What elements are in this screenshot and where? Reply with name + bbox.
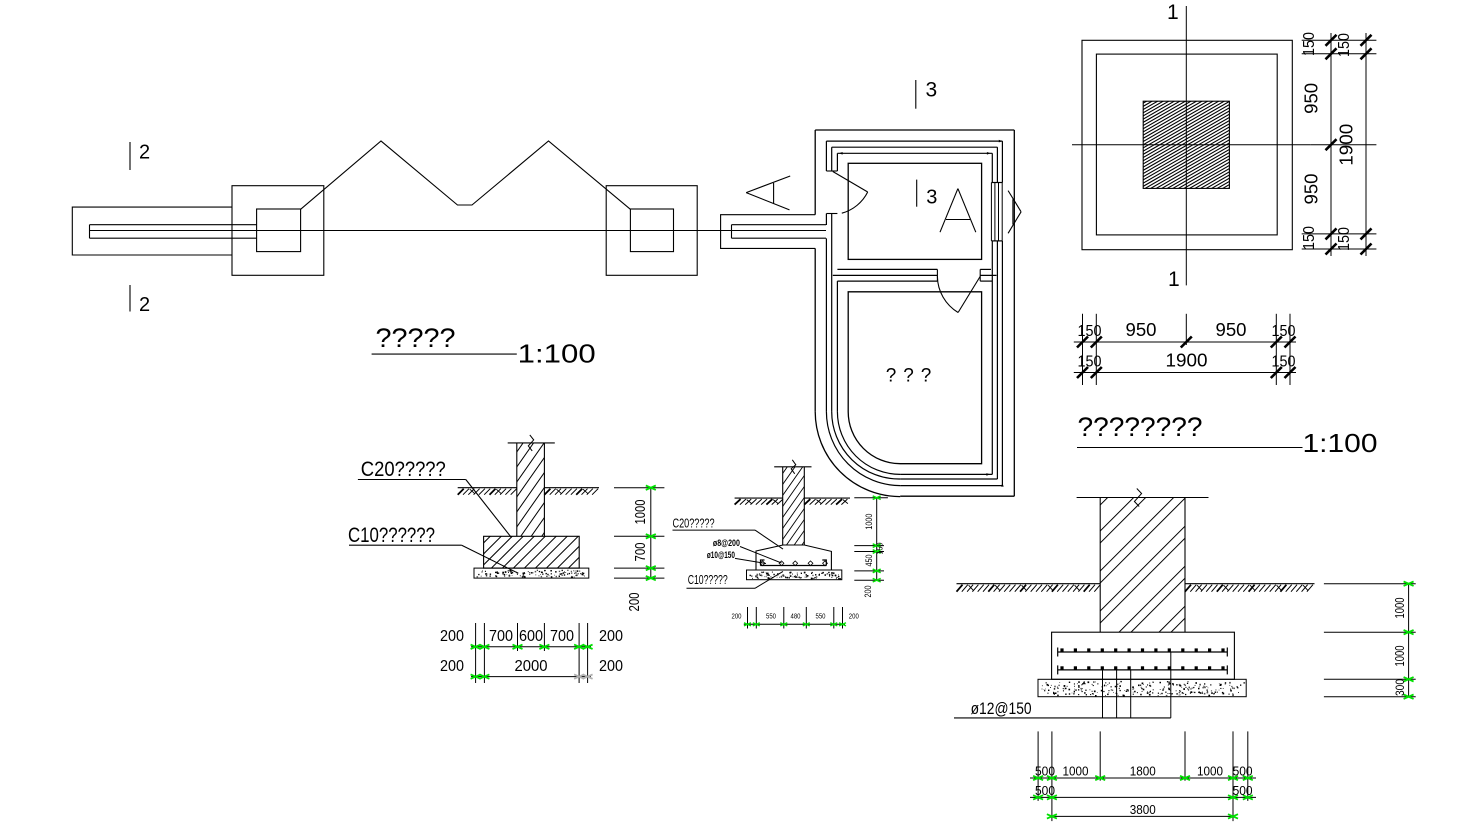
dim text right col B bbox=[1336, 33, 1357, 251]
detail3 bottom dim text row 1 bbox=[1035, 764, 1253, 779]
svg-text:C20?????: C20????? bbox=[673, 516, 715, 531]
svg-text:200: 200 bbox=[440, 658, 464, 675]
right wall cavity lines bbox=[732, 225, 827, 239]
detail1 bottom dim text row 1 bbox=[440, 628, 623, 645]
detail2 right dim text bbox=[863, 514, 885, 598]
svg-text:1000: 1000 bbox=[1197, 764, 1223, 779]
detail2 bottom extension lines bbox=[748, 607, 843, 629]
svg-text:C10?????: C10????? bbox=[688, 572, 728, 587]
svg-text:500: 500 bbox=[1233, 764, 1253, 779]
svg-text:150: 150 bbox=[1336, 227, 1353, 251]
detail2 right dim line bbox=[873, 496, 881, 582]
detail3 bottom dim row 2 bbox=[1030, 795, 1256, 799]
detail2 rebar line with hooks bbox=[760, 560, 827, 566]
footing plan bottom dim row 2 bbox=[1074, 367, 1296, 378]
svg-text:1900: 1900 bbox=[1166, 351, 1208, 371]
door 2 leaf and swing bbox=[937, 276, 980, 312]
svg-text:1000: 1000 bbox=[632, 500, 649, 525]
svg-text:150: 150 bbox=[1336, 33, 1353, 57]
footing plan outer square bbox=[1082, 40, 1292, 249]
svg-text:????????: ???????? bbox=[1078, 412, 1203, 442]
detail3 right extension lines bbox=[1324, 584, 1416, 697]
right wall outline bbox=[721, 215, 816, 249]
footing plan column hatched bbox=[1141, 52, 1231, 238]
section mark 1 bottom bbox=[1168, 268, 1180, 291]
detail3 ground left bbox=[957, 584, 1101, 592]
svg-text:200: 200 bbox=[863, 586, 873, 598]
svg-text:150: 150 bbox=[1272, 354, 1296, 371]
svg-text:2: 2 bbox=[139, 142, 150, 164]
svg-text:300: 300 bbox=[1393, 679, 1407, 696]
svg-text:550: 550 bbox=[816, 614, 826, 621]
svg-text:3: 3 bbox=[926, 79, 938, 102]
detail3 bottom dim text row 3 bbox=[1130, 802, 1156, 817]
svg-text:1000: 1000 bbox=[1392, 598, 1407, 619]
svg-text:ø10@150: ø10@150 bbox=[707, 550, 735, 561]
detail3 bottom dim row 3 bbox=[1047, 814, 1238, 818]
section arrow A left bbox=[746, 176, 790, 210]
guardhouse wall line 4 bbox=[837, 152, 992, 476]
svg-text:1800: 1800 bbox=[1130, 764, 1156, 779]
svg-text:?: ? bbox=[903, 366, 914, 387]
svg-text:200: 200 bbox=[599, 658, 623, 675]
detail1 right dim line bbox=[646, 486, 656, 581]
svg-text:500: 500 bbox=[1035, 764, 1055, 779]
detail2 label C10 bbox=[687, 571, 784, 588]
detail1 label C20 bbox=[358, 458, 512, 538]
footing plan inner square bbox=[1096, 54, 1277, 235]
detail3 bottom dim text row 2 bbox=[1035, 783, 1253, 798]
column C1 outer bbox=[232, 186, 324, 276]
column C2 outer bbox=[606, 186, 697, 276]
detail2 label rebar bottom bbox=[707, 550, 766, 563]
svg-text:700: 700 bbox=[489, 628, 513, 645]
svg-text:600: 600 bbox=[519, 628, 543, 645]
detail3 rebar row 1 bbox=[1058, 648, 1228, 657]
detail2 bottom dim line bbox=[744, 623, 846, 626]
detail3 rebar row 2 bbox=[1058, 665, 1228, 674]
dim text bottom row 2 bbox=[1078, 351, 1296, 371]
svg-text:500: 500 bbox=[1233, 783, 1253, 798]
svg-text:ø8@200: ø8@200 bbox=[713, 538, 740, 549]
dim text right col A bbox=[1301, 32, 1322, 250]
svg-text:3: 3 bbox=[926, 187, 937, 209]
svg-text:200: 200 bbox=[732, 614, 742, 621]
footing plan title bbox=[1077, 412, 1378, 458]
section mark 3 top bbox=[916, 79, 937, 109]
detail1 label C10 bbox=[348, 524, 518, 573]
svg-text:450: 450 bbox=[864, 555, 874, 567]
detail1 ground right bbox=[544, 488, 599, 495]
room 2 text bbox=[886, 366, 932, 387]
svg-text:150: 150 bbox=[1301, 226, 1318, 250]
guardhouse outer wall bbox=[815, 130, 1014, 497]
svg-text:150: 150 bbox=[1078, 354, 1102, 371]
detail2 label rebar top bbox=[713, 538, 782, 563]
svg-text:150: 150 bbox=[1272, 323, 1296, 340]
svg-text:1900: 1900 bbox=[1337, 124, 1357, 166]
svg-text:3800: 3800 bbox=[1130, 802, 1156, 817]
svg-text:C10??????: C10?????? bbox=[348, 524, 435, 547]
detail2 bottom dim text bbox=[732, 614, 859, 621]
detail2 ground right bbox=[804, 498, 850, 505]
detail1 right dim text bbox=[626, 500, 649, 612]
svg-text:480: 480 bbox=[791, 614, 801, 621]
guardhouse wall line 2 bbox=[826, 140, 1003, 487]
detail3 bottom dim row 1 bbox=[1030, 776, 1256, 780]
guardhouse wall line 3 bbox=[832, 147, 998, 479]
detail2 column bbox=[774, 440, 811, 576]
detail1 bottom dim row 2 bbox=[471, 674, 593, 678]
svg-text:200: 200 bbox=[599, 628, 623, 645]
footing plan bottom extension lines bbox=[1083, 314, 1291, 385]
detail1 bottom extension lines bbox=[476, 623, 588, 683]
svg-text:2000: 2000 bbox=[515, 658, 548, 675]
detail3 footing outline bbox=[1052, 632, 1235, 679]
svg-text:1: 1 bbox=[1168, 268, 1180, 291]
svg-text:?: ? bbox=[921, 366, 932, 387]
detail1 ground left bbox=[458, 488, 517, 495]
centerline of gate plan bbox=[90, 230, 827, 232]
svg-text:700: 700 bbox=[632, 543, 649, 562]
footing plan vertical centerline bbox=[1185, 6, 1187, 285]
door 1 leaf and swing bbox=[833, 172, 868, 214]
svg-text:950: 950 bbox=[1302, 174, 1322, 205]
detail3 bedding stippled bbox=[1038, 679, 1246, 696]
gate leaf zigzag bbox=[301, 141, 631, 209]
svg-text:550: 550 bbox=[766, 614, 776, 621]
footing plan right extension lines bbox=[1302, 40, 1377, 249]
svg-text:950: 950 bbox=[1126, 320, 1157, 340]
gate plan title bbox=[372, 323, 596, 369]
section mark 1 top bbox=[1167, 1, 1179, 24]
detail1 bottom dim text row 2 bbox=[440, 658, 623, 675]
middle wall lines bbox=[833, 269, 997, 281]
svg-text:1:100: 1:100 bbox=[518, 339, 596, 369]
detail3 rebar label leaders bbox=[954, 652, 1171, 718]
svg-text:1000: 1000 bbox=[1063, 764, 1089, 779]
detail3 right dim line bbox=[1404, 582, 1414, 699]
svg-text:?: ? bbox=[886, 366, 897, 387]
section mark 2 top bbox=[130, 142, 150, 171]
detail1 right extension lines bbox=[614, 488, 664, 578]
detail3 right dim text bbox=[1392, 598, 1407, 697]
detail2 bedding stippled bbox=[747, 570, 842, 580]
detail2 label C20 bbox=[673, 516, 784, 550]
column C2 inner bbox=[630, 209, 673, 252]
svg-text:1000: 1000 bbox=[1392, 646, 1407, 667]
dim text bottom row 1 bbox=[1078, 320, 1296, 340]
detail1 bedding stippled bbox=[474, 568, 589, 578]
svg-text:ø12@150: ø12@150 bbox=[971, 699, 1032, 718]
svg-text:700: 700 bbox=[550, 628, 574, 645]
room 2 inner outline bbox=[848, 292, 981, 464]
window on right wall bbox=[991, 183, 1002, 241]
footing plan horizontal centerline bbox=[1072, 144, 1311, 146]
room 1 inner outline bbox=[848, 163, 981, 259]
footing plan right dim line B bbox=[1361, 33, 1372, 256]
svg-text:150: 150 bbox=[876, 542, 885, 554]
svg-text:950: 950 bbox=[1302, 83, 1322, 114]
svg-text:200: 200 bbox=[440, 628, 464, 645]
svg-text:C20?????: C20????? bbox=[361, 458, 446, 481]
svg-text:200: 200 bbox=[849, 614, 859, 621]
detail1 column bbox=[508, 410, 555, 575]
left wall cavity lines bbox=[90, 225, 257, 239]
detail1 bottom dim row 1 bbox=[471, 645, 593, 649]
section letter A in room 1 bbox=[940, 189, 976, 233]
svg-text:1: 1 bbox=[1167, 1, 1179, 24]
detail3 column bbox=[1077, 418, 1209, 705]
detail3 rebar label text bbox=[971, 699, 1032, 718]
column C1 inner bbox=[257, 209, 301, 252]
section mark 3 inner bbox=[917, 180, 938, 209]
svg-text:2: 2 bbox=[139, 294, 150, 316]
svg-text:150: 150 bbox=[1078, 323, 1102, 340]
footing plan bottom dim row 1 bbox=[1074, 337, 1296, 348]
footing plan right dim line A bbox=[1326, 33, 1337, 256]
detail2 footing outline bbox=[756, 545, 831, 570]
svg-text:200: 200 bbox=[626, 593, 643, 612]
detail1 footing hatched bbox=[482, 445, 582, 655]
svg-text:950: 950 bbox=[1216, 320, 1247, 340]
detail3 bottom extension lines bbox=[1038, 731, 1248, 821]
svg-text:?????: ????? bbox=[376, 323, 456, 353]
svg-text:150: 150 bbox=[1301, 32, 1318, 56]
svg-text:1000: 1000 bbox=[864, 514, 874, 530]
detail3 ground right bbox=[1185, 584, 1315, 592]
detail2 ground left bbox=[735, 498, 783, 505]
section mark 2 bottom bbox=[130, 285, 150, 316]
section arrow A right bbox=[1008, 191, 1021, 234]
detail2 right extension lines bbox=[854, 498, 888, 581]
svg-text:1:100: 1:100 bbox=[1303, 428, 1378, 458]
door 1 jambs bbox=[826, 171, 837, 214]
svg-text:500: 500 bbox=[1035, 783, 1055, 798]
left wall outline bbox=[72, 207, 232, 255]
